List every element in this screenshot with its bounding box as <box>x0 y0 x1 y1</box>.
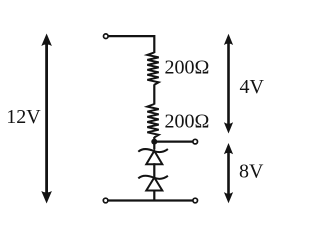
wire D2 to bottom <box>153 190 155 202</box>
svg-text:4V: 4V <box>240 76 265 98</box>
terminal top-left <box>104 34 109 39</box>
svg-text:8V: 8V <box>239 161 264 183</box>
resistor R2 <box>147 104 158 137</box>
wire R2 to junction <box>153 137 155 150</box>
wire D1 to D2 <box>153 163 155 177</box>
svg-text:200Ω: 200Ω <box>165 110 210 132</box>
arrow 8V <box>224 143 233 203</box>
terminal bottom-left <box>103 198 108 203</box>
zener diode D2 <box>138 176 168 191</box>
resistor R1 <box>147 52 158 84</box>
zener diode D1 <box>138 149 168 164</box>
arrow 4V <box>224 34 233 134</box>
wire bottom <box>107 199 193 201</box>
svg-text:200Ω: 200Ω <box>165 56 210 78</box>
arrow 12V <box>41 34 52 204</box>
terminal bottom-right <box>193 198 198 203</box>
wire between resistors <box>153 84 155 104</box>
wire vertical top lead <box>153 35 155 53</box>
terminal mid-right <box>193 139 198 144</box>
wire mid to terminal <box>154 141 193 143</box>
wire top <box>107 35 154 37</box>
svg-text:12V: 12V <box>6 106 41 128</box>
node junction <box>151 139 157 145</box>
